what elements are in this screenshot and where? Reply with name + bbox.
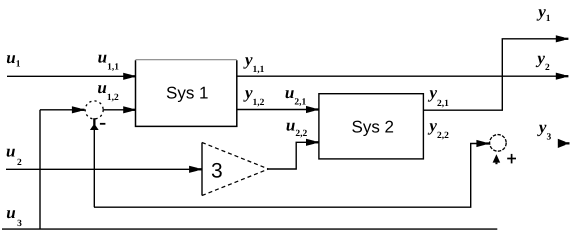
svg-text:Sys 2: Sys 2 — [352, 118, 395, 137]
svg-text:3: 3 — [211, 160, 223, 183]
svg-text:Sys 1: Sys 1 — [166, 84, 209, 103]
